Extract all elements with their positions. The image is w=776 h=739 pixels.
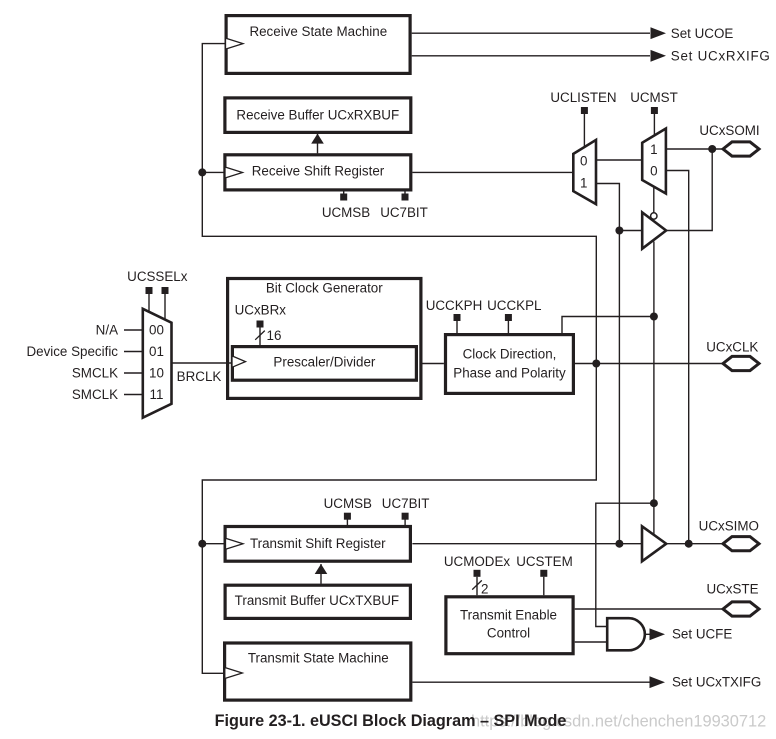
svg-text:0: 0: [580, 153, 587, 168]
svg-text:00: 00: [149, 322, 164, 337]
svg-text:UCSTEM: UCSTEM: [516, 554, 573, 569]
svg-text:UCxSTE: UCxSTE: [706, 582, 758, 597]
svg-text:Bit Clock Generator: Bit Clock Generator: [266, 281, 383, 296]
svg-text:1: 1: [580, 175, 587, 190]
svg-text:UCxBRx: UCxBRx: [235, 303, 287, 318]
svg-text:Set UCOE: Set UCOE: [671, 26, 734, 41]
svg-text:01: 01: [149, 344, 164, 359]
svg-text:UCLISTEN: UCLISTEN: [550, 90, 616, 105]
svg-text:UC7BIT: UC7BIT: [382, 496, 430, 511]
svg-text:UCCKPH: UCCKPH: [426, 298, 483, 313]
svg-text:0: 0: [650, 163, 657, 178]
svg-text:Receive Buffer UCxRXBUF: Receive Buffer UCxRXBUF: [236, 107, 399, 122]
svg-text:SMCLK: SMCLK: [72, 387, 118, 402]
svg-text:Receive State Machine: Receive State Machine: [249, 24, 387, 39]
svg-text:Set UCxTXIFG: Set UCxTXIFG: [672, 675, 761, 690]
svg-text:UCMODEx: UCMODEx: [444, 554, 511, 569]
svg-text:Transmit State Machine: Transmit State Machine: [248, 650, 389, 665]
svg-text:Transmit Enable: Transmit Enable: [460, 608, 557, 623]
svg-text:Device Specific: Device Specific: [26, 344, 118, 359]
svg-text:Transmit Buffer UCxTXBUF: Transmit Buffer UCxTXBUF: [235, 593, 399, 608]
svg-text:Figure 23-1. eUSCI Block Diagr: Figure 23-1. eUSCI Block Diagram – SPI M…: [215, 712, 567, 730]
svg-text:UCSSELx: UCSSELx: [127, 269, 188, 284]
svg-text:UCxSIMO: UCxSIMO: [699, 519, 759, 534]
svg-text:Transmit Shift Register: Transmit Shift Register: [250, 536, 386, 551]
svg-text:SMCLK: SMCLK: [72, 366, 118, 381]
svg-text:UCMSB: UCMSB: [324, 496, 372, 511]
svg-text:N/A: N/A: [96, 322, 118, 337]
svg-text:BRCLK: BRCLK: [177, 369, 222, 384]
svg-text:UCxSOMI: UCxSOMI: [699, 123, 759, 138]
svg-text:Set UCxRXIFG: Set UCxRXIFG: [671, 48, 771, 63]
svg-text:UC7BIT: UC7BIT: [380, 205, 428, 220]
svg-text:Clock Direction,: Clock Direction,: [463, 347, 557, 362]
svg-text:UCMST: UCMST: [630, 90, 678, 105]
svg-text:Receive Shift Register: Receive Shift Register: [252, 163, 385, 178]
svg-text:16: 16: [267, 328, 282, 343]
svg-text:Phase and Polarity: Phase and Polarity: [453, 366, 566, 381]
svg-text:11: 11: [150, 387, 164, 402]
svg-text:Set UCFE: Set UCFE: [672, 626, 732, 641]
svg-text:UCxCLK: UCxCLK: [706, 340, 758, 355]
svg-text:UCCKPL: UCCKPL: [487, 298, 541, 313]
svg-text:1: 1: [650, 142, 657, 157]
svg-text:2: 2: [481, 581, 488, 596]
svg-text:Prescaler/Divider: Prescaler/Divider: [273, 355, 375, 370]
svg-text:UCMSB: UCMSB: [322, 205, 370, 220]
svg-text:Control: Control: [487, 626, 530, 641]
svg-text:10: 10: [149, 366, 164, 381]
